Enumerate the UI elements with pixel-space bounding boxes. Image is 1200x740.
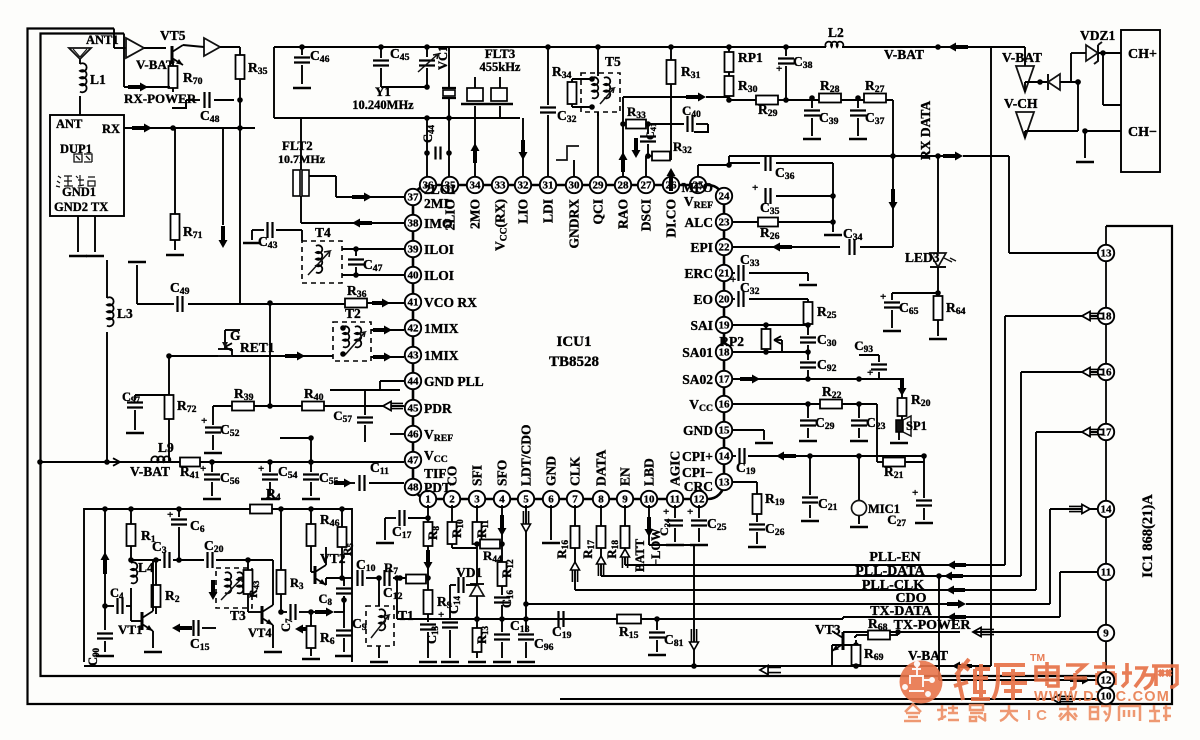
resistor R69: [832, 640, 884, 669]
resistor R10: [448, 505, 478, 548]
svg-text:V-BAT: V-BAT: [908, 648, 948, 663]
svg-text:22: 22: [719, 242, 731, 254]
svg-text:41: 41: [408, 297, 419, 309]
capacitor C41: [640, 123, 658, 159]
arrow up: [667, 168, 676, 191]
resistor R20: [898, 392, 931, 420]
ground: [1076, 161, 1094, 164]
resistor R25: [804, 299, 837, 325]
resistor R33: [626, 104, 651, 129]
capacitor C29: [799, 404, 835, 441]
transistor VT4: [248, 605, 273, 640]
resistor R9: [424, 578, 452, 622]
svg-text:RAO: RAO: [616, 199, 631, 229]
capacitor C6: [167, 506, 205, 563]
wire: [370, 578, 388, 662]
capacitor C15b: [172, 620, 216, 653]
svg-text:L2: L2: [828, 25, 844, 40]
svg-text:+: +: [258, 463, 264, 475]
svg-text:T1: T1: [398, 608, 414, 623]
wire QCI-RAO cluster: [623, 96, 692, 98]
wire SA01: [732, 351, 808, 353]
wire: [301, 202, 404, 223]
svg-text:10: 10: [1101, 691, 1113, 703]
arrow: [772, 243, 792, 252]
svg-text:T4: T4: [315, 225, 331, 240]
svg-text:CH+: CH+: [1128, 47, 1157, 62]
resistor R44: [477, 540, 505, 565]
wire: [1049, 509, 1051, 604]
svg-text:L4: L4: [138, 560, 154, 575]
wire: [706, 96, 729, 98]
capacitor C16: [494, 589, 515, 621]
filter FLT2: [278, 118, 326, 202]
arrow: [132, 124, 152, 133]
capacitor C52: [201, 406, 240, 453]
capacitor C37: [849, 95, 885, 139]
svg-text:27: 27: [641, 180, 653, 192]
capacitor C9: [335, 597, 367, 656]
svg-text:VCC(RX): VCC(RX): [493, 199, 510, 251]
wire: [783, 76, 893, 103]
svg-text:+: +: [201, 415, 207, 427]
wire: [397, 577, 428, 579]
diode: [1048, 74, 1081, 90]
wire SAI: [732, 322, 811, 328]
arrow: [352, 219, 372, 228]
transistor VT5: [144, 28, 186, 65]
capacitor C33: [730, 252, 808, 286]
crystal Y1: [352, 47, 456, 118]
capacitor C3: [152, 539, 204, 568]
svg-text:L3: L3: [117, 306, 133, 321]
wire CRC: [732, 482, 757, 494]
ground: [824, 222, 842, 235]
speaker SP1: [890, 416, 927, 443]
svg-text:7: 7: [572, 494, 578, 506]
capacitor C49: [165, 280, 345, 312]
svg-text:TB8528: TB8528: [549, 354, 599, 370]
resistor R22: [820, 384, 842, 409]
variable capacitor VC1: [418, 44, 450, 87]
svg-text:9: 9: [1103, 628, 1109, 640]
svg-text:PDR: PDR: [424, 401, 452, 416]
resistor R8: [424, 505, 442, 581]
svg-text:48: 48: [408, 482, 420, 494]
svg-text:GNDRX: GNDRX: [567, 199, 582, 249]
capacitor C24: [657, 505, 684, 545]
wire BATT-LOW: [633, 505, 663, 572]
svg-text:14: 14: [719, 451, 731, 463]
wire: [842, 46, 938, 48]
wire V-BAT rail: [37, 459, 404, 479]
svg-text:MFO: MFO: [682, 180, 714, 195]
svg-text:RP1: RP1: [738, 50, 763, 65]
resistor R13: [468, 619, 490, 662]
resistor R43: [244, 557, 261, 604]
capacitor C10: [344, 557, 382, 586]
svg-text:44: 44: [408, 376, 420, 388]
resistor R64: [929, 296, 966, 339]
IC top pin labels: [443, 199, 679, 251]
capacitor C4: [102, 586, 131, 614]
inductor L9: [113, 440, 174, 466]
capacitor C17: [376, 510, 428, 543]
capacitor C27: [887, 456, 933, 529]
svg-text:11: 11: [1101, 567, 1111, 579]
svg-text:15: 15: [719, 425, 731, 437]
gndrx step: [556, 146, 579, 177]
wire RX-POWER: [124, 34, 197, 107]
connector IC1 868(21)A spine wire: [1105, 226, 1107, 696]
capacitor C20: [204, 538, 248, 568]
wire: [79, 96, 81, 115]
wire: [892, 100, 894, 156]
ground: [69, 255, 104, 258]
svg-text:29: 29: [593, 180, 605, 192]
arrow: [946, 586, 965, 595]
capacitor C55: [302, 459, 339, 499]
capacitor C38: [776, 44, 813, 76]
transistor VT1: [118, 611, 153, 637]
amplifier V-BAT: [1002, 50, 1042, 92]
arrow down: [519, 118, 528, 177]
wire: [166, 353, 333, 395]
svg-text:2LOI: 2LOI: [424, 182, 456, 197]
capacitor C14: [438, 577, 477, 662]
arrow: [908, 648, 972, 671]
svg-text:33: 33: [495, 180, 507, 192]
resistor R27: [864, 78, 886, 103]
wire pin9 stub: [895, 629, 901, 635]
arrow down: [424, 550, 433, 570]
wire: [990, 47, 992, 666]
svg-text:ILOI: ILOI: [424, 268, 454, 283]
arrow: [944, 572, 963, 581]
arrow: [285, 352, 305, 361]
svg-text:QCI: QCI: [591, 199, 606, 225]
svg-text:FLT2: FLT2: [282, 138, 313, 153]
svg-text:34: 34: [470, 180, 482, 192]
fet RET1: [218, 328, 275, 356]
wire: [620, 97, 626, 127]
label 双工: [74, 154, 92, 162]
svg-text:CPI−: CPI−: [682, 465, 713, 480]
inductor L3: [107, 260, 133, 462]
wire TX-POWER: [843, 631, 960, 633]
arrow: [686, 93, 706, 102]
buffer triangle: [183, 38, 240, 56]
potentiometer RP2: [719, 322, 782, 355]
wire: [302, 115, 520, 121]
capacitor C32a: [540, 44, 577, 177]
wire: [831, 659, 833, 666]
arrow: [973, 628, 994, 637]
svg-text:20: 20: [719, 294, 731, 306]
wire PLL-DATA: [601, 575, 956, 577]
svg-text:8: 8: [598, 494, 604, 506]
svg-text:21: 21: [719, 268, 730, 280]
inductor L2: [825, 25, 844, 47]
svg-text:5: 5: [523, 494, 529, 506]
svg-text:12: 12: [1101, 675, 1113, 687]
svg-text:47: 47: [408, 455, 420, 467]
wire pin10: [560, 695, 1098, 704]
svg-text:DSCI: DSCI: [639, 199, 654, 231]
arrow down: [498, 505, 507, 544]
wire: [645, 156, 647, 177]
wire: [78, 216, 95, 252]
svg-text:14: 14: [1101, 504, 1113, 516]
svg-text:BATT: BATT: [633, 538, 647, 572]
resistor R21: [877, 404, 927, 481]
svg-text:19: 19: [719, 320, 731, 332]
resistor R71: [171, 128, 203, 250]
svg-text:GND: GND: [683, 423, 713, 438]
label CDO: [895, 591, 926, 606]
resistor R11: [473, 505, 491, 548]
capacitor C56: [200, 462, 240, 499]
transformer T2: [333, 306, 371, 361]
arrow: [943, 152, 963, 161]
svg-text:23: 23: [719, 217, 731, 229]
capacitor C18: [493, 618, 530, 662]
wire VCO RX: [128, 262, 170, 304]
wire V-BAT bottom: [84, 663, 991, 669]
arrow: [947, 600, 966, 609]
resistor R36: [267, 283, 404, 308]
diode VD1: [456, 565, 482, 580]
resistor R7: [384, 560, 426, 584]
label V-BAT: [136, 57, 175, 72]
wire EPI: [732, 246, 840, 248]
filter FLT3: [461, 46, 521, 118]
svg-text:1: 1: [425, 494, 431, 506]
resistor R6: [302, 609, 335, 659]
resistor R3: [277, 506, 305, 612]
wire: [381, 84, 430, 90]
capacitor C96: [517, 616, 554, 662]
svg-text:VT1: VT1: [118, 622, 143, 637]
svg-text:PLL-DATA: PLL-DATA: [855, 564, 925, 579]
svg-text:LIO: LIO: [516, 199, 531, 224]
svg-text:+: +: [200, 463, 206, 475]
svg-text:DI.CO: DI.CO: [664, 199, 679, 238]
ground: [166, 254, 184, 257]
wire: [1021, 368, 1103, 377]
wire MFO: [698, 156, 732, 177]
resistor R2: [152, 557, 180, 614]
svg-text:2: 2: [449, 494, 455, 506]
wire SA02: [732, 375, 902, 384]
svg-text:2LIO: 2LIO: [443, 199, 458, 231]
capacitor C13: [419, 625, 440, 663]
IC ICU1 TB8528 body: [413, 185, 724, 499]
hollow arrow: [522, 505, 531, 540]
wire: [947, 616, 1060, 618]
wire: [1103, 53, 1121, 105]
node: [170, 125, 176, 131]
svg-text:RX: RX: [102, 122, 120, 136]
inner border wire: [41, 34, 1107, 677]
capacitor C35: [752, 182, 836, 217]
capacitor C40: [648, 103, 708, 132]
svg-text:CRC: CRC: [684, 479, 713, 494]
arrow: [383, 402, 403, 411]
wire GND15: [732, 430, 773, 443]
hollow arrow: [760, 666, 781, 675]
wire: [1035, 432, 1037, 590]
label V-BAT: [884, 47, 924, 62]
resistor R68: [868, 616, 898, 640]
IC left pin labels: [424, 182, 484, 495]
arrow: [128, 83, 148, 92]
transistor VT3: [815, 622, 843, 651]
svg-text:RP2: RP2: [719, 334, 744, 349]
ground: [243, 242, 261, 245]
label TX-POWER: [894, 618, 972, 633]
svg-text:16: 16: [1101, 367, 1113, 379]
arrow down: [219, 128, 228, 248]
svg-text:LED3: LED3: [905, 250, 940, 265]
diode VD1 symbol: [470, 548, 484, 622]
svg-text:T2: T2: [345, 306, 361, 321]
arrow up: [621, 549, 630, 568]
svg-text:ERC: ERC: [684, 266, 713, 281]
resistor R17: [580, 505, 606, 576]
svg-text:17: 17: [1101, 427, 1113, 439]
label PLL-DATA: [855, 564, 925, 579]
arrow down: [209, 580, 218, 600]
svg-text:13: 13: [1101, 248, 1113, 260]
capacitor C97: [122, 390, 169, 430]
svg-text:+: +: [752, 182, 758, 194]
node: [1025, 79, 1048, 85]
capacitor C39: [803, 95, 839, 139]
capacitor C92: [800, 352, 837, 382]
svg-text:SFI: SFI: [470, 465, 485, 486]
svg-text:SP1: SP1: [906, 419, 927, 433]
wire: [1020, 372, 1022, 576]
svg-text:6: 6: [548, 494, 554, 506]
svg-text:+: +: [880, 291, 886, 303]
svg-text:T3: T3: [230, 608, 246, 623]
svg-text:FLT3: FLT3: [485, 46, 516, 61]
transformer T4: [302, 225, 342, 283]
svg-text:VT4: VT4: [248, 626, 272, 640]
wire PLL-CLK: [575, 589, 958, 591]
svg-text:38: 38: [408, 218, 420, 230]
transformer T5: [581, 54, 621, 116]
arrow down: [898, 378, 907, 398]
resistor R31: [667, 44, 701, 160]
transistor VT2: [311, 551, 346, 585]
wire CPI+: [732, 448, 924, 464]
svg-text:L9: L9: [158, 440, 174, 455]
svg-text:28: 28: [618, 180, 630, 192]
capacitor C54: [258, 459, 298, 499]
wire pin46 stub: [390, 433, 404, 435]
svg-text:GND2 TX: GND2 TX: [54, 200, 108, 214]
wire: [225, 330, 240, 338]
svg-text:CPI+: CPI+: [682, 449, 713, 464]
svg-text:ICU1: ICU1: [556, 334, 591, 350]
svg-text:PLL-EN: PLL-EN: [869, 550, 920, 565]
amplifier V-CH: [1004, 96, 1038, 138]
wire: [309, 176, 404, 197]
resistor R19: [753, 491, 785, 522]
LED LED3: [905, 153, 956, 296]
wire: [1024, 82, 1026, 92]
wire: [963, 156, 1098, 253]
node: [267, 303, 273, 409]
wire: [114, 29, 126, 49]
resistor R26: [732, 196, 836, 242]
IC right pin labels: [682, 180, 714, 494]
wire PDR: [213, 405, 404, 407]
arrow up: [101, 506, 110, 574]
transformer T3: [216, 568, 252, 623]
svg-text:+: +: [867, 367, 873, 379]
svg-text:VD1: VD1: [456, 565, 482, 580]
resistor R34: [552, 64, 592, 107]
label TX-DATA: [870, 604, 933, 619]
IC pin circles: [405, 177, 732, 507]
arrow: [352, 193, 372, 202]
svg-text:+: +: [687, 506, 693, 518]
svg-text:37: 37: [408, 192, 420, 204]
wire: [1004, 316, 1006, 565]
capacitor C36: [729, 155, 833, 196]
svg-text:LBD: LBD: [642, 458, 657, 486]
capacitor C65: [880, 291, 938, 331]
capacitor C48: [186, 92, 234, 125]
duplexer DUP1 box: [50, 115, 124, 216]
svg-text:+: +: [912, 487, 918, 499]
resistor R70: [169, 62, 203, 88]
wire: [973, 631, 1098, 633]
wire PLL-EN: [625, 564, 959, 566]
resistor R39: [232, 386, 254, 411]
wire TX-DATA: [843, 617, 947, 619]
arrow: [372, 299, 390, 308]
capacitor C90: [86, 560, 114, 666]
svg-text:SA01: SA01: [682, 345, 713, 360]
resistor R40: [302, 386, 324, 411]
capacitor C21: [801, 456, 838, 521]
wire CDO: [523, 540, 958, 607]
ground: [799, 284, 817, 287]
arrow: [935, 43, 968, 52]
svg-text:12: 12: [694, 494, 706, 506]
resistor R35: [236, 47, 268, 100]
svg-text:SA02: SA02: [682, 372, 713, 387]
wire GND6: [542, 505, 560, 543]
svg-text:30: 30: [569, 180, 581, 192]
connector pin circles over watermark: [1098, 672, 1114, 704]
capacitor C19b: [736, 460, 756, 477]
zener diode VDZ1: [1071, 28, 1121, 64]
resistor R30: [725, 76, 758, 103]
svg-text:TM: TM: [1030, 652, 1045, 664]
svg-text:39: 39: [408, 244, 420, 256]
svg-text:VCO RX: VCO RX: [424, 295, 477, 310]
resistor R16: [554, 505, 580, 590]
arrow up: [571, 562, 580, 582]
transformer T1: [366, 606, 414, 646]
svg-text:9: 9: [622, 494, 628, 506]
arrow up: [597, 556, 606, 576]
